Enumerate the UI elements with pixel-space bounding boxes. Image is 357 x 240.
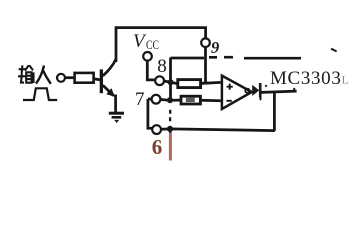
wire dashed continuation x170 to pin6 node	[169, 110, 171, 122]
svg-text:9: 9	[211, 38, 219, 57]
transistor Q1 base bar	[100, 69, 103, 93]
node Vcc terminal	[143, 52, 152, 61]
ground bar 1	[109, 112, 124, 115]
wire chain line end tick	[331, 49, 337, 52]
wire feedback vertical drop	[273, 92, 276, 131]
wire pin7 down-around to pin6 node	[148, 99, 152, 128]
wire R2 to op-amp - input	[201, 99, 221, 102]
diode tail mark	[260, 97, 262, 100]
node pin 8 terminal	[155, 76, 164, 85]
node pin 9 terminal	[201, 38, 210, 47]
transistor Q1 collector stroke	[103, 59, 116, 76]
transistor Q1 emitter arrowhead	[106, 88, 115, 97]
svg-text:MC3303: MC3303	[270, 68, 341, 89]
resistor R2	[181, 96, 200, 104]
wire R1 to op-amp + input	[202, 82, 221, 83]
op-amp U1 triangle	[222, 76, 252, 109]
wire red pin6 marking line	[169, 133, 172, 161]
wire output to right	[261, 91, 296, 92]
ground bar 3	[114, 120, 119, 123]
wire emitter to ground	[114, 95, 117, 113]
junction dot row2	[167, 97, 173, 103]
wire input terminal to Rb	[65, 76, 74, 79]
svg-text:V: V	[133, 31, 147, 52]
wire pin7 to junction	[160, 98, 167, 101]
svg-text:L: L	[342, 73, 349, 87]
wire Vcc terminal to pin8	[147, 61, 155, 80]
input terminal node	[57, 74, 65, 82]
node op-amp output loop	[245, 89, 249, 93]
node pin 7 terminal	[152, 95, 161, 104]
wire pin8 to junction	[164, 80, 169, 84]
svg-text:7: 7	[135, 89, 145, 110]
wire top rail (collector to pin9 corner)	[116, 28, 206, 62]
wire horizontal link at y58	[171, 57, 204, 60]
label 输 (shu) glyph strokes	[18, 65, 34, 83]
svg-text:CC: CC	[146, 38, 159, 52]
junction dot pin9/row1	[204, 81, 208, 85]
diode VD1 cathode bar	[259, 83, 262, 98]
wire pin6 node to feedback drop	[161, 129, 275, 131]
label 入 (ru) glyph strokes	[36, 66, 51, 83]
ground bar 2	[112, 116, 122, 119]
node pin 6 terminal	[152, 125, 161, 134]
svg-text:6: 6	[152, 135, 163, 159]
wire vertical x170 (link down through rows)	[169, 58, 172, 102]
resistor Rb (base)	[75, 73, 94, 83]
speck near label	[265, 85, 267, 87]
junction dot pin6 row	[167, 126, 173, 132]
wire Rb to base	[94, 79, 100, 80]
wire black top of pin6 stub	[169, 131, 171, 142]
junction dot row1	[168, 79, 174, 85]
resistor R2 inner smudge	[186, 98, 195, 102]
diode VD1	[252, 85, 259, 96]
wire pin9 vertical down to noninverting row	[204, 47, 207, 83]
input pulse waveform symbol	[23, 88, 57, 100]
wire junction to R2	[173, 99, 181, 102]
svg-text:8: 8	[157, 56, 167, 77]
wire output end tick	[293, 88, 295, 92]
op-amp - symbol	[226, 100, 231, 102]
wire pin7 stub left	[148, 98, 152, 101]
resistor R1	[178, 80, 201, 88]
wire chain line (IC boundary dashes)	[209, 57, 301, 58]
wire junction to R1	[173, 81, 177, 85]
op-amp + symbol	[227, 84, 233, 90]
transistor Q1 emitter stroke	[103, 85, 114, 96]
